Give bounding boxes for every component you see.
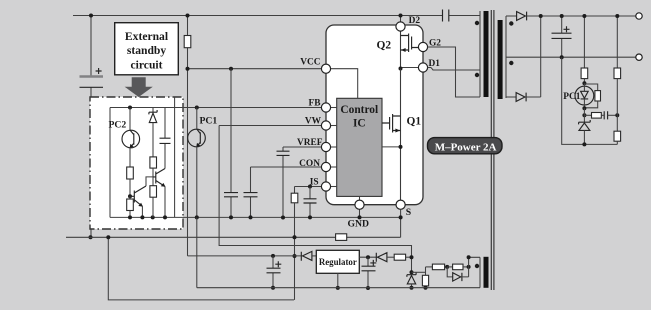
inductor T1 secondary winding <box>498 16 506 99</box>
node junction C13 ground <box>366 286 370 290</box>
transistor Q4 standby <box>153 143 165 217</box>
wire standby loop left <box>109 108 111 218</box>
wire G2 drive to winding <box>428 47 480 97</box>
wire PC1 emitter to aux ground bus <box>196 217 198 287</box>
node junction LED parallel top <box>582 81 586 85</box>
wire R2 to node <box>129 179 131 196</box>
svg-text:Control: Control <box>340 104 378 116</box>
wire regulator input line <box>359 256 376 258</box>
svg-text:PC1: PC1 <box>200 115 218 126</box>
diode D8 aux rectified to regulator <box>376 253 394 262</box>
node junction R4 ground <box>128 215 132 219</box>
capacitor C12 VCC smoothing <box>267 256 282 288</box>
diode D9 zener aux clamp <box>407 273 416 288</box>
resistor R4 Qa base bias <box>127 196 134 217</box>
svg-text:M–Power 2A: M–Power 2A <box>435 141 497 153</box>
resistor R17 aux series first <box>426 264 448 270</box>
svg-text:VREF: VREF <box>297 138 323 148</box>
node junction C8 ground <box>308 215 312 219</box>
node junction rail-D2 <box>399 14 403 18</box>
inductor T1 primary upper winding <box>480 11 489 97</box>
wire FB line <box>110 97 321 108</box>
wire aux winding top tap <box>469 257 480 267</box>
wire CON line <box>251 166 322 168</box>
resistor R9 current sense <box>336 234 347 241</box>
pin VW <box>321 121 330 130</box>
wire VCC to control IC <box>331 69 358 99</box>
node winding phase dot drive <box>475 73 479 77</box>
resistor R13 divider upper <box>614 16 621 115</box>
diode D5 secondary rectifier lower <box>506 16 541 101</box>
box standby network dash-dot <box>90 97 183 229</box>
svg-text:CON: CON <box>299 159 320 169</box>
resistor R2 PC2 emitter <box>127 167 134 179</box>
node junction return-C10 <box>560 55 564 59</box>
node junction C12 top <box>271 254 275 258</box>
wire D1 to primary junction <box>428 68 480 71</box>
transistor Q3 standby <box>130 186 146 217</box>
node junction GND bus <box>358 215 362 219</box>
node junction regulator ground <box>336 286 340 290</box>
resistor R3 zener chain <box>150 157 157 168</box>
svg-text:S: S <box>406 207 411 218</box>
label M-Power 2A badge <box>428 138 503 154</box>
wire regulator ground pin <box>337 273 339 288</box>
node junction C7 ground <box>281 216 285 220</box>
node winding phase dot secondary upper <box>509 21 513 25</box>
wire Q1 source sense to control IC <box>382 146 401 148</box>
diode D7 regulator output <box>301 251 316 260</box>
wire transformer core <box>491 10 494 290</box>
capacitor C1 input bulk electrolytic <box>80 16 104 238</box>
inductor T1 auxiliary winding <box>480 257 489 288</box>
wire VCC feed line <box>188 255 302 257</box>
node junction C5 ground <box>229 215 233 219</box>
node junction D10 left <box>445 265 449 269</box>
capacitor C6 CON filter <box>244 167 258 217</box>
node junction R15 aux node <box>410 255 414 259</box>
svg-text:Q2: Q2 <box>377 40 392 52</box>
pin D2 <box>396 16 405 32</box>
diode D10 parallel aux <box>447 267 468 281</box>
resistor R16 VW divider <box>422 267 428 288</box>
node output terminal positive <box>636 13 642 19</box>
node junction R8 vcc feed line <box>293 254 297 258</box>
svg-text:Q1: Q1 <box>407 116 422 128</box>
node junction C13 top <box>366 255 370 259</box>
wire VW line and riser <box>219 126 411 273</box>
resistor R12 phase comp <box>584 113 603 119</box>
capacitor C10 output electrolytic <box>552 16 572 57</box>
pin FB <box>321 103 330 112</box>
op-amp U1 hybrid IC package <box>326 25 423 205</box>
wire S to sense resistor <box>400 209 402 237</box>
capacitor C8 IS filter <box>304 187 317 218</box>
wire Qa collector to Qb base <box>146 177 153 186</box>
op-amp PC1 phototransistor <box>188 108 206 218</box>
node junction PC2 collector <box>128 106 132 110</box>
wire CON stub <box>331 166 337 168</box>
capacitor C13 regulator input <box>362 257 377 288</box>
node junction Q2 source Q1 drain <box>399 67 403 71</box>
node junction zener aux <box>410 270 414 274</box>
transistor Q2 upper MOSFET <box>401 31 419 68</box>
diode D3 zener standby <box>149 108 157 157</box>
node junction R1-VCC <box>186 67 190 71</box>
node junction S ground bus <box>399 215 403 219</box>
wire VREF line <box>283 146 321 148</box>
node junction zener bottom line <box>582 142 586 146</box>
resistor R5 Qb base bias <box>150 186 157 218</box>
resistor R11 LED parallel <box>584 84 600 108</box>
node junction C12 ground <box>271 286 275 290</box>
node junction comp R13 <box>615 113 619 117</box>
wire IS line <box>295 186 322 188</box>
svg-text:FB: FB <box>309 98 321 108</box>
node junction zener RC <box>582 113 586 117</box>
svg-text:standby: standby <box>127 44 167 57</box>
capacitor C5 VCC bypass <box>224 69 238 218</box>
node winding phase dot secondary lower <box>509 61 513 65</box>
node junction FB-PC1 <box>195 106 199 110</box>
wire VW stub <box>331 125 337 127</box>
node junction R8 sense bus <box>293 235 297 239</box>
pin S <box>396 200 405 209</box>
capacitor C11 phase comp <box>604 111 617 119</box>
pin D1 <box>401 63 428 72</box>
svg-text:IC: IC <box>353 117 366 129</box>
node junction Qa emitter ground <box>140 215 144 219</box>
resistor R10 LED feed <box>581 16 588 83</box>
resistor R18 aux series second <box>447 264 468 270</box>
wire ground bus GND <box>110 216 401 218</box>
node winding phase dot primary <box>475 21 479 25</box>
wire aux node link <box>412 271 426 273</box>
svg-text:GND: GND <box>348 219 370 230</box>
pin CON <box>321 162 330 171</box>
node junction rail-R13 <box>615 14 619 18</box>
diode D6 zener feedback <box>579 108 591 144</box>
node junction Qb emitter ground <box>163 215 167 219</box>
node junction R5 ground <box>151 215 155 219</box>
node junction LED parallel bottom <box>582 106 586 110</box>
wire top input rail <box>73 15 480 17</box>
pin VREF <box>321 142 330 151</box>
capacitor C4 standby <box>160 108 171 151</box>
node junction R16 ground <box>424 286 428 290</box>
wire lower return bus <box>66 236 401 238</box>
wire aux ground bus <box>197 287 480 289</box>
box external standby circuit <box>115 23 179 75</box>
node winding phase dot auxiliary <box>475 264 479 268</box>
wire VREF stub <box>331 146 337 148</box>
resistor R1 startup from rail <box>184 16 191 256</box>
svg-text:External: External <box>125 30 169 43</box>
resistor R14 divider lower <box>614 115 621 144</box>
capacitor C7 VREF <box>277 147 290 218</box>
node junction VCC-C5 <box>229 67 233 71</box>
pin G2 <box>418 42 427 51</box>
wire output return line <box>506 56 636 58</box>
capacitor C9 rail series <box>443 10 449 22</box>
diode D4 secondary rectifier upper <box>506 12 636 21</box>
node junction aux tap <box>467 255 471 259</box>
node junction PC1 emitter ground <box>195 215 199 219</box>
svg-text:Regulator: Regulator <box>319 257 357 267</box>
box regulator <box>316 250 359 273</box>
node junction D5 output rail <box>539 14 543 18</box>
resistor R15 regulator input series <box>394 254 411 260</box>
node junction zener ground <box>410 286 414 290</box>
svg-text:circuit: circuit <box>131 59 163 72</box>
node junction rail-C10 <box>560 14 564 18</box>
svg-text:PC1: PC1 <box>563 92 580 102</box>
wire IS stub <box>331 186 337 188</box>
node junction Qa base <box>128 194 132 198</box>
wire FB stub <box>331 107 337 109</box>
diode PC1 LED secondary <box>575 83 594 108</box>
wire VCC line <box>188 68 322 70</box>
arrow standby control <box>125 77 153 97</box>
pin VCC <box>321 64 330 73</box>
node junction Q1 source sense <box>399 145 403 149</box>
svg-text:PC2: PC2 <box>109 119 127 130</box>
transistor Q1 lower MOSFET <box>382 69 401 210</box>
pin GND <box>355 196 364 217</box>
wire standby loop right <box>174 108 176 218</box>
pin IS <box>321 182 330 191</box>
resistor R8 IS filter <box>291 187 298 300</box>
svg-text:VCC: VCC <box>300 57 321 67</box>
svg-text:IS: IS <box>310 178 319 188</box>
node output terminal return <box>636 54 642 60</box>
wire return riser to feedback bottom <box>562 57 618 144</box>
node junction rail-R10 <box>582 14 586 18</box>
node junction C6 ground <box>249 215 253 219</box>
node junction riser-return bus <box>106 235 110 239</box>
wire bottom loop bus <box>108 237 294 300</box>
op-amp U2 control IC block <box>337 98 382 196</box>
node junction C1-ground bus <box>89 235 93 239</box>
op-amp PC2 phototransistor <box>122 108 140 168</box>
node junction rail-C1 <box>89 14 93 18</box>
svg-text:D2: D2 <box>409 16 421 26</box>
wire R3 to Qb base <box>152 168 154 186</box>
svg-text:VW: VW <box>305 116 322 126</box>
node junction IS-C8 <box>308 185 312 189</box>
node junction rail-R1 <box>186 14 190 18</box>
node junction D10 right <box>467 265 471 269</box>
